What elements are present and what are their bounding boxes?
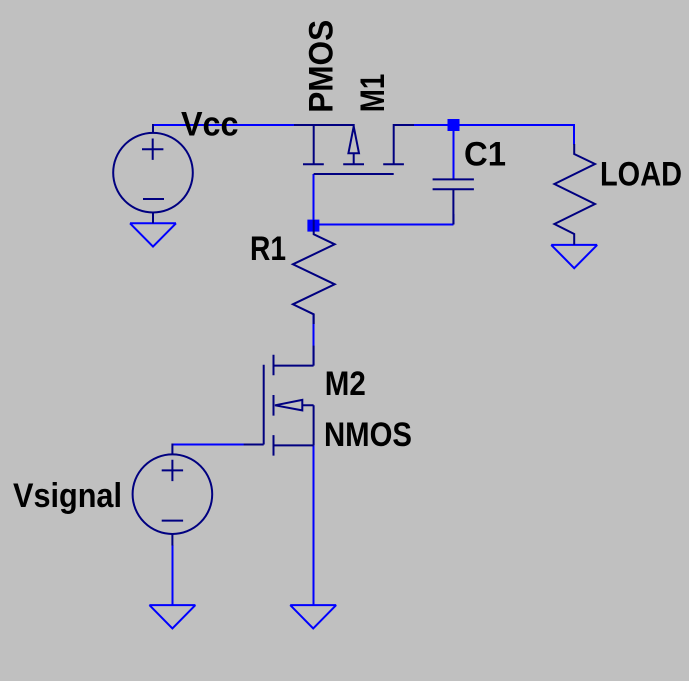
- svg-text:LOAD: LOAD: [600, 155, 682, 193]
- svg-text:NMOS: NMOS: [324, 416, 412, 454]
- svg-text:M2: M2: [325, 365, 366, 403]
- svg-text:PMOS: PMOS: [302, 20, 340, 113]
- svg-text:Vcc: Vcc: [181, 106, 239, 144]
- svg-text:M1: M1: [354, 74, 392, 113]
- svg-text:Vsignal: Vsignal: [13, 477, 122, 515]
- svg-text:C1: C1: [464, 135, 506, 173]
- svg-text:R1: R1: [250, 230, 286, 268]
